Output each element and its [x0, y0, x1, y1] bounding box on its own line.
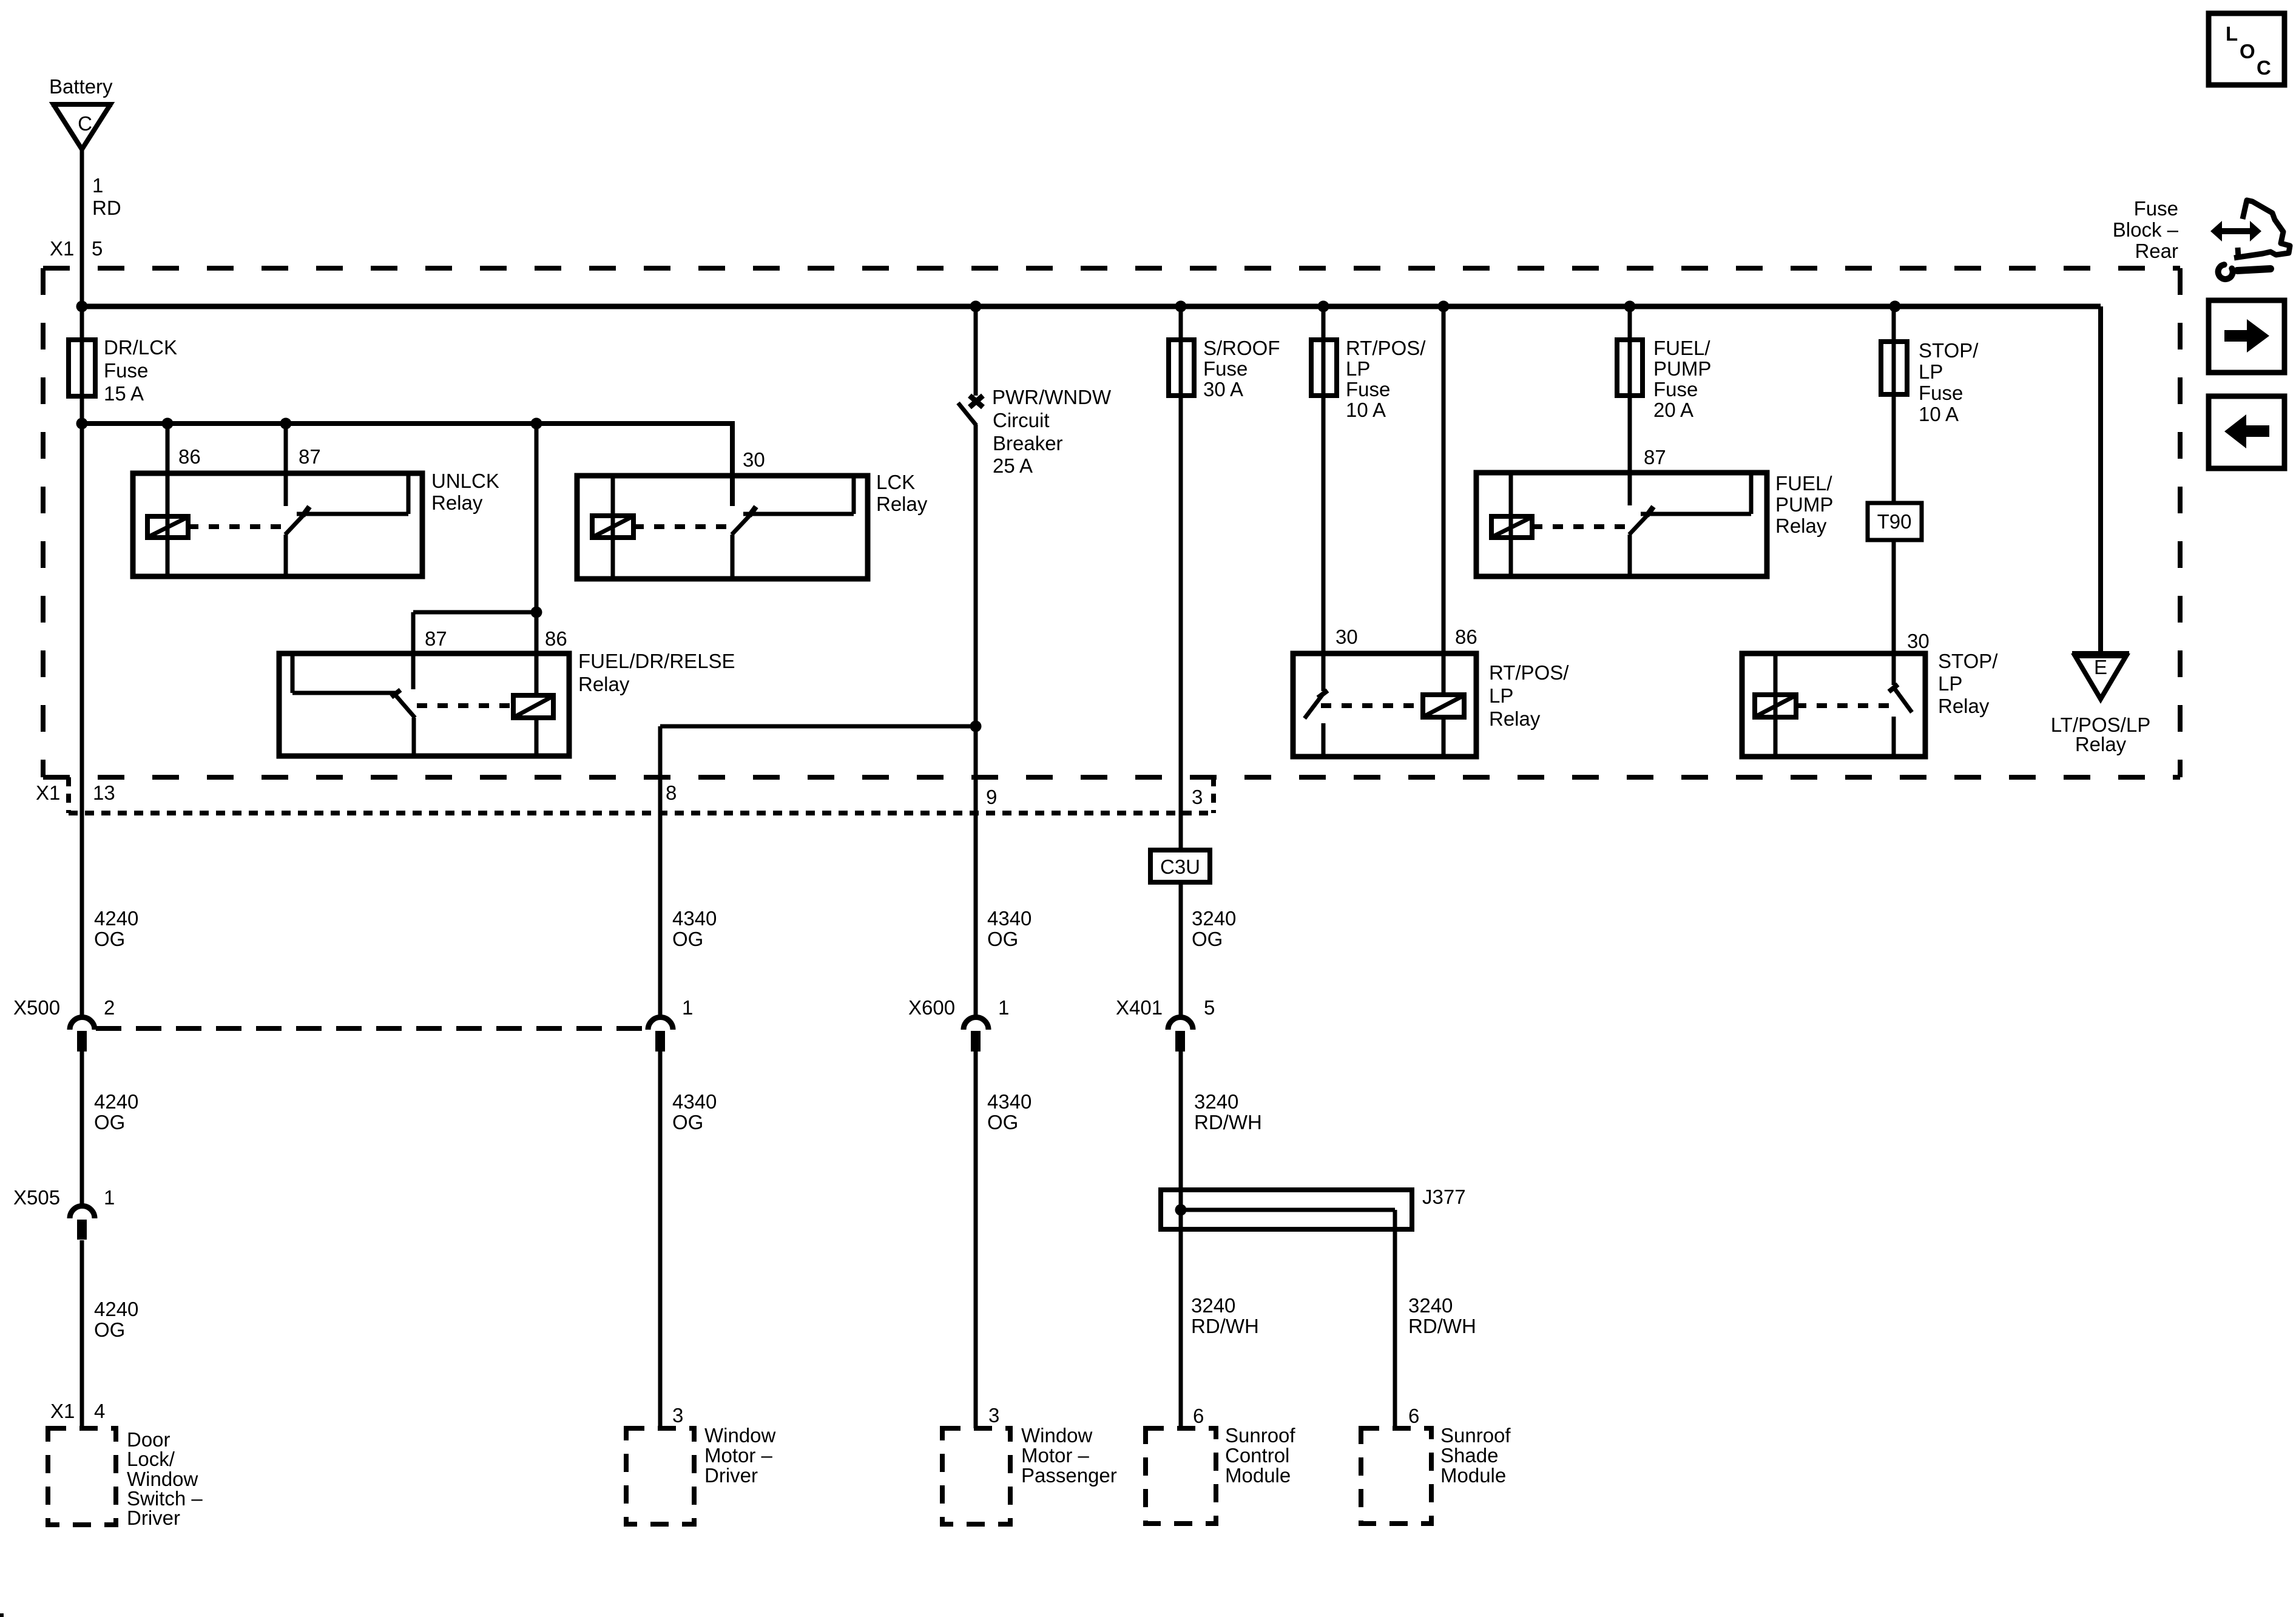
- svg-text:Circuit: Circuit: [993, 409, 1050, 431]
- svg-text:3240: 3240: [1192, 907, 1236, 930]
- svg-text:RD/WH: RD/WH: [1191, 1315, 1259, 1337]
- svg-text:RT/POS/: RT/POS/: [1489, 661, 1569, 684]
- svg-text:LP: LP: [1489, 684, 1513, 707]
- svg-text:Passenger: Passenger: [1021, 1464, 1117, 1487]
- svg-text:3240: 3240: [1408, 1294, 1453, 1317]
- svg-text:T90: T90: [1877, 510, 1912, 533]
- svg-text:Relay: Relay: [1489, 707, 1541, 730]
- svg-text:Battery: Battery: [49, 75, 113, 98]
- svg-text:86: 86: [545, 627, 567, 650]
- svg-text:86: 86: [178, 445, 201, 468]
- svg-text:4340: 4340: [672, 1090, 717, 1113]
- svg-text:Driver: Driver: [127, 1507, 180, 1529]
- svg-text:Block –: Block –: [2113, 218, 2179, 241]
- svg-text:X1: X1: [50, 237, 74, 260]
- svg-text:PUMP: PUMP: [1775, 493, 1833, 516]
- svg-text:J377: J377: [1422, 1186, 1466, 1208]
- svg-text:Breaker: Breaker: [993, 432, 1063, 454]
- svg-text:3: 3: [988, 1404, 999, 1426]
- svg-text:8: 8: [666, 781, 677, 804]
- svg-text:3: 3: [672, 1404, 683, 1426]
- svg-text:4: 4: [94, 1400, 105, 1422]
- svg-text:4240: 4240: [94, 1298, 138, 1320]
- svg-text:4240: 4240: [94, 1090, 138, 1113]
- svg-text:86: 86: [1455, 626, 1477, 648]
- svg-text:Relay: Relay: [578, 673, 630, 695]
- svg-text:Motor –: Motor –: [1021, 1444, 1090, 1467]
- svg-text:Fuse: Fuse: [1653, 378, 1698, 400]
- svg-text:6: 6: [1408, 1405, 1419, 1427]
- svg-text:30: 30: [1335, 626, 1358, 648]
- svg-text:PWR/WNDW: PWR/WNDW: [992, 386, 1112, 408]
- svg-text:FUEL/: FUEL/: [1775, 472, 1832, 495]
- svg-text:X401: X401: [1116, 996, 1163, 1019]
- svg-text:Sunroof: Sunroof: [1225, 1424, 1295, 1447]
- svg-text:30: 30: [1907, 630, 1930, 652]
- svg-text:Control: Control: [1225, 1444, 1289, 1467]
- svg-text:Sunroof: Sunroof: [1440, 1424, 1511, 1447]
- svg-text:15 A: 15 A: [104, 382, 144, 405]
- svg-text:OG: OG: [987, 928, 1018, 950]
- svg-text:OG: OG: [672, 928, 703, 950]
- svg-text:4340: 4340: [672, 907, 717, 930]
- svg-text:87: 87: [425, 627, 447, 650]
- svg-text:5: 5: [92, 237, 103, 260]
- svg-text:3: 3: [1192, 786, 1203, 808]
- svg-text:1: 1: [104, 1186, 115, 1209]
- svg-text:Relay: Relay: [876, 493, 928, 515]
- svg-text:RD: RD: [92, 197, 121, 219]
- svg-text:Fuse: Fuse: [2134, 197, 2178, 220]
- svg-text:10 A: 10 A: [1919, 403, 1959, 425]
- svg-text:OG: OG: [987, 1111, 1018, 1133]
- svg-text:OG: OG: [94, 928, 125, 950]
- svg-text:Shade: Shade: [1440, 1444, 1498, 1467]
- svg-text:FUEL/DR/RELSE: FUEL/DR/RELSE: [578, 650, 735, 672]
- svg-text:FUEL/: FUEL/: [1653, 337, 1710, 359]
- svg-text:3240: 3240: [1194, 1090, 1238, 1113]
- svg-text:O: O: [2240, 40, 2255, 62]
- svg-text:Module: Module: [1225, 1464, 1291, 1487]
- svg-text:Driver: Driver: [704, 1464, 758, 1487]
- svg-text:4340: 4340: [987, 1090, 1032, 1113]
- svg-text:OG: OG: [672, 1111, 703, 1133]
- svg-text:Lock/: Lock/: [127, 1448, 175, 1470]
- svg-text:30 A: 30 A: [1203, 378, 1243, 400]
- svg-text:C: C: [2257, 56, 2271, 79]
- svg-text:RD/WH: RD/WH: [1194, 1111, 1262, 1133]
- svg-text:STOP/: STOP/: [1919, 339, 1979, 362]
- svg-text:PUMP: PUMP: [1653, 357, 1711, 380]
- svg-text:Fuse: Fuse: [1919, 382, 1963, 404]
- svg-text:1: 1: [998, 996, 1009, 1019]
- svg-text:X505: X505: [13, 1186, 60, 1209]
- svg-text:6: 6: [1193, 1405, 1204, 1427]
- svg-text:Relay: Relay: [1938, 695, 1990, 717]
- svg-text:1: 1: [682, 996, 693, 1019]
- svg-text:LP: LP: [1346, 357, 1370, 380]
- svg-text:LP: LP: [1919, 360, 1943, 383]
- svg-text:C: C: [78, 112, 92, 135]
- svg-text:25 A: 25 A: [993, 454, 1033, 477]
- svg-text:X600: X600: [908, 996, 955, 1019]
- svg-text:UNLCK: UNLCK: [431, 470, 499, 492]
- svg-text:X1: X1: [36, 781, 60, 804]
- svg-text:2: 2: [104, 996, 115, 1019]
- svg-text:4340: 4340: [987, 907, 1032, 930]
- svg-text:LP: LP: [1938, 672, 1962, 695]
- svg-text:RD/WH: RD/WH: [1408, 1315, 1476, 1337]
- svg-text:10 A: 10 A: [1346, 399, 1386, 421]
- svg-text:30: 30: [743, 448, 765, 471]
- svg-text:Module: Module: [1440, 1464, 1506, 1487]
- svg-text:87: 87: [1644, 446, 1666, 468]
- svg-text:C3U: C3U: [1160, 856, 1200, 878]
- svg-text:E: E: [2094, 656, 2107, 678]
- svg-text:Relay: Relay: [2075, 733, 2127, 755]
- svg-text:Fuse: Fuse: [104, 359, 148, 382]
- svg-text:5: 5: [1204, 996, 1215, 1019]
- svg-text:Fuse: Fuse: [1346, 378, 1390, 400]
- svg-text:RT/POS/: RT/POS/: [1346, 337, 1426, 359]
- svg-text:9: 9: [986, 786, 997, 808]
- svg-text:LCK: LCK: [876, 471, 915, 493]
- svg-text:S/ROOF: S/ROOF: [1203, 337, 1280, 359]
- svg-text:13: 13: [93, 781, 115, 804]
- svg-text:20 A: 20 A: [1653, 399, 1693, 421]
- svg-text:3240: 3240: [1191, 1294, 1235, 1317]
- svg-text:X500: X500: [13, 996, 60, 1019]
- svg-text:STOP/: STOP/: [1938, 650, 1998, 672]
- svg-text:DR/LCK: DR/LCK: [104, 336, 177, 359]
- svg-text:OG: OG: [1192, 928, 1223, 950]
- svg-text:X1: X1: [50, 1400, 75, 1422]
- svg-text:OG: OG: [94, 1111, 125, 1133]
- svg-text:Window: Window: [704, 1424, 776, 1447]
- svg-text:Motor –: Motor –: [704, 1444, 773, 1467]
- svg-text:Relay: Relay: [1775, 515, 1827, 537]
- svg-text:Relay: Relay: [431, 491, 483, 514]
- svg-text:L: L: [2226, 22, 2238, 45]
- svg-text:Window: Window: [1021, 1424, 1093, 1447]
- svg-text:Fuse: Fuse: [1203, 357, 1248, 380]
- svg-text:87: 87: [299, 445, 321, 468]
- svg-text:1: 1: [92, 174, 103, 197]
- svg-text:OG: OG: [94, 1318, 125, 1341]
- svg-text:Rear: Rear: [2135, 240, 2178, 262]
- svg-text:4240: 4240: [94, 907, 138, 930]
